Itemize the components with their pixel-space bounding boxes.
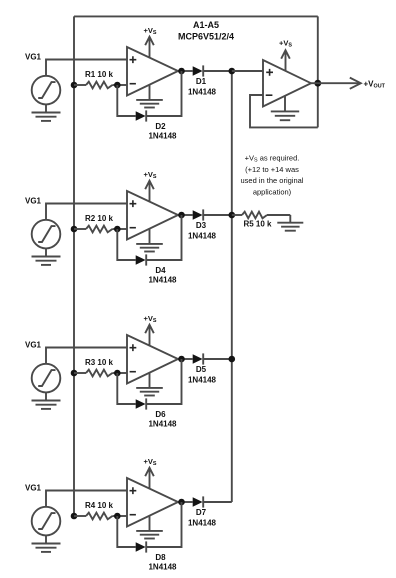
wire: A2 -input to D4 anode xyxy=(117,229,135,260)
+Vs supply arrow (A2) xyxy=(145,181,154,202)
node: diode bus junction (stage 2) xyxy=(229,212,236,219)
svg-text:1N4148: 1N4148 xyxy=(188,519,217,528)
node: A1 inverting input junction xyxy=(114,82,121,89)
svg-text:1N4148: 1N4148 xyxy=(188,232,217,241)
svg-text:R4 10 k: R4 10 k xyxy=(85,501,114,510)
node: A3 inverting input junction xyxy=(114,370,121,377)
ground: VG1 (stage 1) xyxy=(32,104,61,121)
resistor R4 10 k xyxy=(74,513,127,520)
ground: VG1 (stage 2) xyxy=(32,248,61,265)
diode D6 1N4148 (feedback) xyxy=(136,398,147,409)
wire: top feedback wire from A5 output to left bus xyxy=(74,15,318,17)
svg-text:D3: D3 xyxy=(196,221,207,230)
svg-text:D8: D8 xyxy=(155,553,166,562)
svg-text:1N4148: 1N4148 xyxy=(148,563,177,572)
wire: A4 -input to D8 anode xyxy=(117,516,135,547)
op-amp A5 (output buffer) xyxy=(263,60,311,107)
svg-text:1N4148: 1N4148 xyxy=(148,276,177,285)
resistor R2 10 k xyxy=(74,226,127,233)
svg-text:R3 10 k: R3 10 k xyxy=(85,358,114,367)
diode D7 1N4148 xyxy=(193,496,204,507)
svg-text:D6: D6 xyxy=(155,410,166,419)
voltage source VG1 (stage 2) xyxy=(32,220,61,249)
wire: D8 cathode to A4 output xyxy=(146,502,181,547)
wire: diode bus to A5 +input xyxy=(232,70,263,72)
voltage source VG1 (stage 3) xyxy=(32,364,61,393)
svg-text:D1: D1 xyxy=(196,77,207,86)
resistor R1 10 k xyxy=(74,82,127,89)
svg-text:A1-A5: A1-A5 xyxy=(193,20,219,30)
svg-text:R1 10 k: R1 10 k xyxy=(85,70,114,79)
ground: R5 termination xyxy=(277,215,303,231)
resistor R3 10 k xyxy=(74,370,127,377)
wire: VG1 to A4 +input (stage 4) xyxy=(46,491,127,507)
voltage source VG1 (stage 1) xyxy=(32,76,61,105)
node: A4 inverting input junction xyxy=(114,513,121,520)
wire: D5 cathode to diode bus xyxy=(203,358,232,360)
ground: A4 negative supply xyxy=(136,516,163,539)
wire: diode-OR bus (D1/D3/D5/D7 cathodes to A5 +input) xyxy=(231,71,233,502)
wire: diode bus to R5 xyxy=(232,214,242,216)
resistor R5 10 k xyxy=(242,212,290,219)
node: A1 output junction xyxy=(178,68,185,75)
svg-text:VG1: VG1 xyxy=(25,341,42,350)
voltage source VG1 (stage 4) xyxy=(32,507,61,536)
ground: VG1 (stage 4) xyxy=(32,535,61,552)
diode D8 1N4148 (feedback) xyxy=(136,541,147,552)
node: feedback bus / R3 junction xyxy=(71,370,78,377)
wire: D3 cathode to diode bus xyxy=(203,214,232,216)
wire: D6 cathode to A3 output xyxy=(146,359,181,404)
op-amp A1 xyxy=(127,47,178,96)
diode D4 1N4148 (feedback) xyxy=(136,254,147,265)
wire: A1 -input to D2 anode xyxy=(117,85,135,116)
wire: D4 cathode to A2 output xyxy=(146,215,181,260)
svg-text:D7: D7 xyxy=(196,508,207,517)
diode D1 1N4148 xyxy=(193,65,204,76)
wire: VG1 to A2 +input (stage 2) xyxy=(46,204,127,220)
svg-text:D5: D5 xyxy=(196,365,207,374)
wire: D7 cathode to diode bus xyxy=(203,501,232,503)
svg-text:R2 10 k: R2 10 k xyxy=(85,214,114,223)
svg-text:1N4148: 1N4148 xyxy=(188,88,217,97)
wire: A1 output to D1 xyxy=(178,70,193,72)
diode D2 1N4148 (feedback) xyxy=(136,110,147,121)
wire: A2 output to D3 xyxy=(178,214,193,216)
svg-text:VG1: VG1 xyxy=(25,197,42,206)
svg-text:1N4148: 1N4148 xyxy=(188,376,217,385)
diode D3 1N4148 xyxy=(193,209,204,220)
node: feedback bus / R2 junction xyxy=(71,226,78,233)
op-amp A4 xyxy=(127,478,178,527)
+Vs supply arrow (A1) xyxy=(145,37,154,58)
wire: A3 -input to D6 anode xyxy=(117,373,135,404)
wire: D2 cathode to A1 output xyxy=(146,71,181,116)
wire: A5 output to +VOUT arrow xyxy=(311,78,361,89)
node: A3 output junction xyxy=(178,356,185,363)
svg-text:D4: D4 xyxy=(155,266,166,275)
svg-text:1N4148: 1N4148 xyxy=(148,420,177,429)
node: feedback bus / R4 junction xyxy=(71,513,78,520)
node: diode bus junction (stage 3) xyxy=(229,356,236,363)
ground: A1 negative supply xyxy=(136,85,163,108)
op-amp A2 xyxy=(127,191,178,240)
wire: A4 output to D7 xyxy=(178,501,193,503)
wire: VG1 to A1 +input (stage 1) xyxy=(46,60,127,76)
node: diode bus junction (stage 1) xyxy=(229,68,236,75)
wire: right drop from top wire to A5 output node xyxy=(317,16,319,127)
diode D5 1N4148 xyxy=(193,353,204,364)
svg-text:R5 10 k: R5 10 k xyxy=(243,219,272,228)
node: A2 inverting input junction xyxy=(114,226,121,233)
ground: A2 negative supply xyxy=(136,229,163,252)
node: A2 output junction xyxy=(178,212,185,219)
node: A5 output / VOUT xyxy=(314,80,321,87)
wire: left feedback bus (VOUT feedback to R1-R4) xyxy=(73,16,75,516)
+Vs supply arrow (A5) xyxy=(281,50,290,70)
wire: A5 feedback (output to -input) xyxy=(250,95,318,127)
svg-text:VG1: VG1 xyxy=(25,53,42,62)
ground: VG1 (stage 3) xyxy=(32,392,61,409)
ground: A5 negative supply xyxy=(271,96,299,120)
wire: D1 cathode to diode bus xyxy=(203,70,232,72)
ground: A3 negative supply xyxy=(136,373,163,396)
op-amp A3 xyxy=(127,335,178,384)
wire: VG1 to A3 +input (stage 3) xyxy=(46,348,127,364)
wire: A3 output to D5 xyxy=(178,358,193,360)
svg-text:MCP6V51/2/4: MCP6V51/2/4 xyxy=(178,32,234,42)
node: A4 output junction xyxy=(178,499,185,506)
svg-text:1N4148: 1N4148 xyxy=(148,132,177,141)
svg-text:D2: D2 xyxy=(155,122,166,131)
svg-text:VG1: VG1 xyxy=(25,484,42,493)
+Vs supply arrow (A3) xyxy=(145,325,154,346)
+Vs supply arrow (A4) xyxy=(145,468,154,489)
node: feedback bus / R1 junction xyxy=(71,82,78,89)
